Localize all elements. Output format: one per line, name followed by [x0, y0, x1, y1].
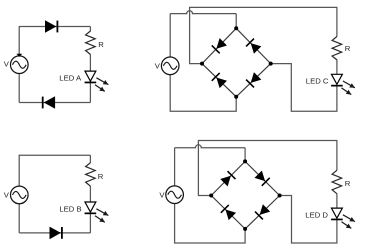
wire left side circuit 1 (lower) — [18, 73, 20, 102]
wire down into bridge top node — [235, 14, 237, 29]
diode D10 (lower-left, cathode at left node) — [221, 205, 236, 220]
resistor R4 — [332, 170, 342, 193]
LED B symbol — [85, 202, 97, 213]
wire left side circuit 3 (lower) — [18, 204, 20, 233]
svg-text:V: V — [4, 59, 10, 68]
bridge diamond edge upper-left — [202, 28, 236, 63]
svg-text:LED C: LED C — [306, 77, 329, 86]
wire top side circuit 1 — [19, 26, 90, 28]
svg-text:V: V — [159, 190, 165, 199]
wire from source V3 top up to node — [169, 14, 171, 57]
wire top side circuit 3 — [19, 154, 90, 156]
bridge diamond edge upper-right — [236, 28, 271, 63]
wire resistor R to LED C — [336, 60, 338, 75]
junction node bridge 1 right — [269, 62, 273, 66]
svg-text:LED B: LED B — [59, 204, 81, 213]
wire left side circuit 1 (upper) — [18, 26, 20, 56]
AC voltage source V1 — [10, 54, 28, 74]
resistor R3 — [332, 37, 342, 60]
LED A symbol — [85, 71, 97, 82]
AC voltage source V3 — [161, 57, 179, 75]
wire top feed with crossover hop to bridge top — [175, 145, 246, 148]
wire from source V4 bottom to bridge bottom node — [175, 204, 246, 243]
bridge diamond edge lower-right — [245, 196, 280, 229]
junction node bridge 1 bottom — [234, 95, 238, 99]
diode D4 (upper-left, cathode at left node) — [212, 38, 227, 53]
wire right side circuit 1 (upper) — [89, 27, 91, 32]
svg-text:R: R — [98, 172, 104, 181]
diode D1 (top, anode left) — [45, 20, 57, 33]
diode D2 (bottom, anode right) — [43, 96, 55, 109]
diode D7 (lower-right, cathode at bottom node) — [246, 72, 261, 87]
junction node bridge 2 right — [278, 194, 282, 198]
wire from bridge left node up and across to resistor R — [198, 141, 337, 196]
bridge diamond edge lower-right — [236, 64, 271, 97]
svg-text:LED D: LED D — [305, 211, 328, 220]
svg-text:R: R — [345, 44, 351, 53]
wire from source V4 top up to node — [174, 148, 176, 186]
AC voltage source V2 — [10, 186, 28, 204]
bridge diamond edge lower-left — [211, 196, 245, 229]
wire bottom side circuit 3 — [19, 232, 90, 234]
junction node bridge 1 top — [234, 26, 238, 30]
diode D8 (upper-left, cathode at top node) — [220, 171, 235, 186]
bridge diamond edge upper-left — [211, 161, 245, 195]
AC voltage source V4 — [166, 186, 184, 204]
light emission arrows of LED D — [342, 215, 355, 229]
junction node bridge 2 bottom — [243, 227, 247, 231]
wire right side circuit 3 (upper) — [89, 155, 91, 163]
diode D9 (upper-right, cathode at right node) — [255, 171, 270, 186]
junction node bridge 2 top — [243, 159, 247, 163]
diode D11 (lower-right, cathode at bottom node) — [255, 204, 270, 219]
wire top feed with crossover hop to bridge top — [170, 11, 236, 14]
diode D6 (lower-left, cathode at left node) — [212, 73, 227, 88]
wire from bridge left node up and across to resistor R — [190, 7, 337, 63]
bridge diamond edge lower-left — [202, 64, 236, 97]
svg-text:V: V — [4, 191, 10, 200]
wire right side circuit 1 (lower) — [89, 54, 91, 102]
wire left side circuit 3 (upper) — [18, 155, 20, 187]
wire LED D to bridge right node — [280, 196, 337, 244]
wire right side circuit 3 (lower) — [89, 186, 91, 233]
LED C symbol — [331, 74, 343, 85]
wire LED C to bridge right node — [271, 64, 337, 112]
svg-text:LED A: LED A — [59, 73, 82, 82]
wire from source V3 bottom to bridge bottom node — [170, 75, 236, 112]
svg-text:R: R — [345, 179, 351, 188]
LED D symbol — [331, 208, 343, 219]
light emission arrows of LED A — [95, 78, 108, 92]
svg-text:R: R — [98, 40, 104, 49]
light emission arrows of LED B — [95, 209, 108, 223]
junction node bridge 1 left — [200, 62, 204, 66]
bridge diamond edge upper-right — [245, 161, 280, 195]
resistor R1 — [86, 31, 96, 54]
wire down into bridge top node — [244, 148, 246, 162]
diode D5 (upper-right, cathode at top node) — [246, 39, 261, 54]
light emission arrows of LED C — [342, 81, 355, 95]
resistor R2 — [86, 163, 96, 186]
diode D3 (bottom, anode left) — [50, 227, 62, 240]
svg-text:V: V — [155, 62, 161, 71]
wire bottom side circuit 1 — [19, 102, 90, 104]
wire resistor R to LED D — [336, 194, 338, 209]
junction node bridge 2 left — [209, 194, 213, 198]
